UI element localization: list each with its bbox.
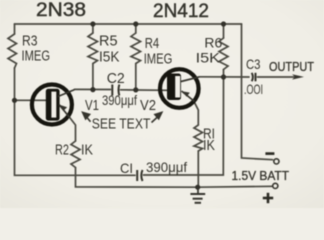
- svg-text:390μμf: 390μμf: [146, 159, 187, 175]
- node dots: [12, 21, 226, 189]
- svg-text:V1: V1: [85, 97, 99, 114]
- svg-text:I5K: I5K: [99, 48, 120, 65]
- wire R2 bottom to bottom rail: [76, 168, 198, 188]
- svg-text:OUTPUT: OUTPUT: [269, 60, 314, 74]
- svg-text:CI: CI: [120, 160, 133, 176]
- wire V1 base lead: [15, 99, 47, 101]
- svg-text:SEE TEXT: SEE TEXT: [92, 116, 151, 133]
- wire R5 drop: [92, 24, 94, 33]
- see-text arrow right: [152, 112, 162, 122]
- output arrow: [292, 74, 304, 79]
- battery positive terminal: [273, 183, 278, 188]
- resistor R2: [71, 141, 80, 168]
- transistor V2: [160, 69, 200, 108]
- node ground junction: [195, 185, 200, 190]
- resistor R5: [88, 33, 98, 64]
- svg-text:R2: R2: [55, 142, 69, 159]
- wire C2 line left (V1 collector to R5 junction to C2): [75, 88, 111, 90]
- resistor R4: [131, 33, 141, 64]
- svg-text:C2: C2: [107, 70, 125, 87]
- capacitor C2: [112, 85, 119, 96]
- wire C2 line right (C2 to R4 junction to V2 base): [121, 89, 168, 92]
- node R5 bottom: [90, 87, 95, 92]
- wire V2 emitter to R1: [194, 101, 199, 126]
- wire C1 node vertical (V2 collector to C1 line): [144, 77, 224, 175]
- wire left vertical + bottom-left horizontal to C1: [14, 24, 16, 34]
- ground: [190, 187, 205, 203]
- svg-text:390μμf: 390μμf: [102, 92, 137, 108]
- capacitor C1: [137, 170, 142, 181]
- wire top rail: [15, 23, 242, 25]
- svg-text:IK: IK: [81, 142, 93, 159]
- svg-text:R5: R5: [99, 32, 118, 49]
- see-text arrow left: [83, 112, 91, 121]
- wire C3 to output arrow: [258, 76, 296, 78]
- node R4 bottom: [133, 87, 138, 92]
- svg-text:1.5V BATT: 1.5V BATT: [232, 168, 290, 183]
- wire R1 bottom: [197, 151, 199, 187]
- node R4 top: [133, 21, 138, 26]
- resistor R3: [8, 34, 17, 68]
- svg-text:IMEG: IMEG: [22, 48, 51, 65]
- svg-text:IMEG: IMEG: [144, 50, 173, 67]
- battery negative terminal: [274, 159, 279, 164]
- svg-text:I5K: I5K: [196, 50, 221, 66]
- svg-text:C3: C3: [246, 56, 261, 72]
- node V1 base / R3: [12, 98, 17, 103]
- capacitor C3: [252, 73, 256, 82]
- resistor R6: [219, 38, 228, 70]
- svg-text:IK: IK: [203, 137, 215, 154]
- node V2 collector: [221, 74, 226, 79]
- svg-text:2N412: 2N412: [153, 1, 209, 22]
- wire R6 drop: [223, 24, 225, 38]
- svg-text:2N38: 2N38: [36, 0, 86, 21]
- wire battery negative vertical: [242, 24, 273, 160]
- wire bottom rail right: [198, 185, 273, 188]
- wire V1 emitter to R2: [69, 116, 76, 141]
- resistor R1: [194, 125, 203, 151]
- svg-text:R6: R6: [204, 34, 222, 50]
- node R5 top: [90, 21, 95, 26]
- svg-text:V2: V2: [140, 97, 156, 114]
- svg-text:.OOI: .OOI: [244, 81, 263, 97]
- node R6 top: [221, 21, 226, 26]
- wire R4 drop: [135, 24, 137, 33]
- wire V2 collector to C3: [200, 76, 250, 78]
- transistor V1: [32, 85, 75, 125]
